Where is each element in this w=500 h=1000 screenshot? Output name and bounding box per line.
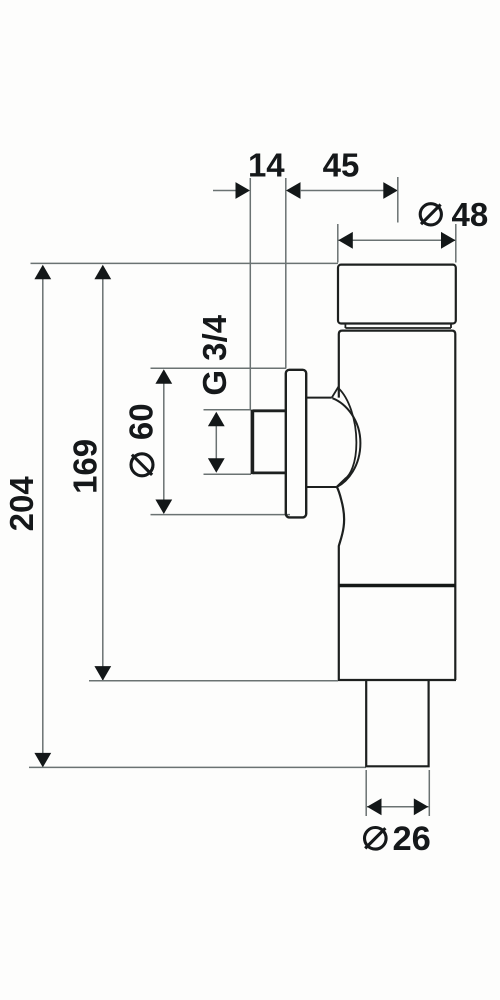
node I: 204 top arrow: [34, 265, 51, 280]
component: wall plate (Ø60 rosette): [286, 370, 306, 518]
wire: Ø60 dimension line: [163, 371, 165, 514]
svg-text:45: 45: [323, 147, 360, 184]
node U: Ø26 left arrow: [367, 798, 382, 815]
node C: arrow pointing right at tube axis x=397.8: [383, 182, 398, 199]
component: main tube body: [339, 331, 456, 680]
wire: G3/4 bottom extension: [204, 473, 252, 475]
wire: Ø26 right extension: [428, 770, 430, 816]
component: inlet dome top neck: [306, 397, 332, 399]
svg-text:204: 204: [3, 476, 40, 532]
node W: label Ø 26: [365, 828, 387, 850]
wire: vertical stub at tube axis: [397, 177, 399, 223]
node A: arrow pointing right at wall face x=250: [236, 182, 251, 199]
wire: G3/4 dimension line: [215, 414, 217, 470]
wire: Ø26 dimension line: [367, 806, 429, 808]
node P: Ø60 bottom arrow: [155, 500, 172, 515]
node J: 204 bottom arrow: [34, 753, 51, 768]
svg-text:14: 14: [248, 147, 285, 184]
svg-text:169: 169: [67, 439, 104, 494]
node F: Ø48 left arrow: [338, 232, 353, 249]
node R: G3/4 top arrow: [208, 412, 225, 427]
wire: extension line left of 14 dim: [213, 190, 237, 192]
wire: top horizontal extension to left dims: [31, 262, 339, 264]
component: outlet pipe (Ø26): [366, 681, 428, 766]
node V: Ø26 right arrow: [414, 798, 429, 815]
component: bold joint line: [339, 584, 456, 587]
wire: Ø26 left extension: [365, 770, 367, 816]
wire: 169 bottom extension: [89, 680, 338, 682]
svg-text:60: 60: [123, 403, 160, 440]
node H: label Ø 48: [420, 204, 441, 225]
component: inlet dome bottom neck: [306, 486, 337, 488]
wire: Ø60 top extension: [151, 367, 287, 369]
wire: 204 dimension line: [42, 266, 44, 767]
svg-text:26: 26: [393, 820, 431, 858]
wire: vertical extension line at x=285.8 (14 right / 45 left): [285, 178, 287, 369]
wire: vertical extension line at x=250 (14 left): [249, 178, 251, 410]
component: valve top cap (Ø48): [338, 265, 456, 324]
svg-text:48: 48: [452, 196, 489, 233]
node B: arrow pointing left at x=286: [286, 182, 301, 199]
component: G3/4 threaded connector: [252, 410, 285, 475]
wire: 169 dimension line: [102, 266, 104, 680]
wire: 204 bottom extension: [29, 766, 366, 768]
wire: body bottom edge: [338, 679, 456, 681]
wire: 45 dimension line: [300, 190, 384, 192]
component: dome inner contour: [337, 389, 357, 487]
wire: Ø48 left extension: [337, 224, 339, 263]
wire: Ø60 bottom extension: [151, 514, 291, 516]
wire: G3/4 top extension: [204, 409, 252, 411]
wire: Ø48 dimension line: [338, 239, 456, 241]
node M: 169 bottom arrow: [94, 666, 111, 681]
component: dome outer contour: [332, 398, 360, 487]
node S: G3/4 bottom arrow: [208, 458, 225, 473]
wire: dome top chamfer: [332, 387, 339, 398]
node O: Ø60 top arrow: [155, 369, 172, 384]
wire: tube lower-left edge with S-curve: [337, 487, 344, 680]
node L: 169 top arrow: [94, 265, 111, 280]
svg-text:G 3/4: G 3/4: [196, 314, 233, 395]
node G: Ø48 right arrow: [441, 232, 456, 249]
wire: Ø48 right extension: [455, 224, 457, 263]
component: cap ring band: [345, 324, 451, 329]
